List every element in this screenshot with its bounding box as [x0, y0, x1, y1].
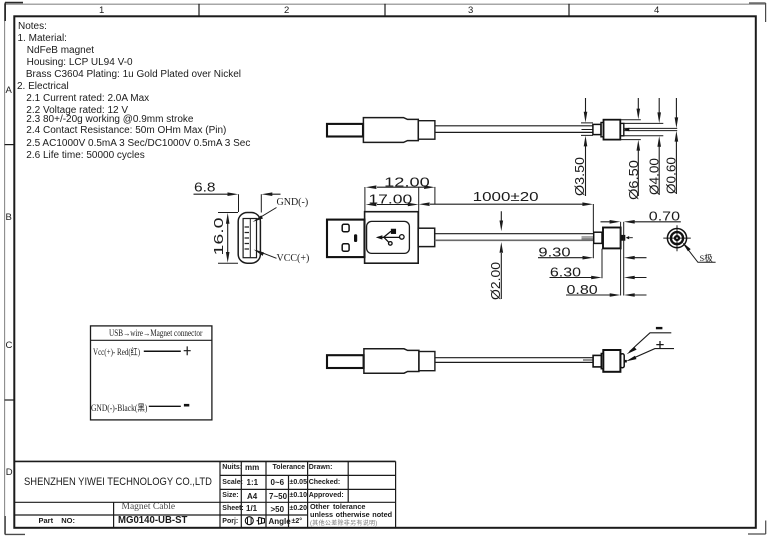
- shell center bar: [354, 234, 357, 242]
- wiring box GND row text: [91, 401, 147, 414]
- leader VCC(+): [257, 251, 277, 259]
- svg-text:0.70: 0.70: [649, 209, 680, 224]
- dimension Ø3.50 arrows: [585, 98, 587, 196]
- notes line 3: [27, 45, 94, 56]
- svg-text:17.00: 17.00: [368, 191, 412, 206]
- USB strain relief (side view): [418, 228, 435, 246]
- USB-A front view outer shell: [238, 213, 260, 264]
- pogo pin lower line (top view): [624, 130, 677, 132]
- magnet connector boot (bottom view): [593, 355, 601, 367]
- USB overmold body (side view): [365, 212, 419, 264]
- wiring red lead line: [144, 350, 181, 352]
- tb tol 0~6: [271, 478, 285, 487]
- notes line 12: [26, 150, 144, 161]
- magnet connector boot (side view): [594, 232, 602, 243]
- product title: [122, 502, 176, 512]
- magnet connector nose (bottom view): [620, 354, 624, 368]
- tb value mm: [245, 463, 259, 472]
- title block top edge: [14, 460, 395, 462]
- magnet connector front step ring (top view): [620, 123, 624, 135]
- svg-text:1000±20: 1000±20: [473, 189, 539, 204]
- magnet tip front view center pin: [674, 235, 680, 241]
- tb tol ±2°: [292, 518, 303, 525]
- svg-text:12.00: 12.00: [384, 174, 430, 189]
- USB plug strain relief (bottom view): [419, 352, 435, 371]
- notes line 7: [26, 93, 149, 104]
- tb header Tolerance: [273, 464, 306, 471]
- zone row label A: [6, 85, 12, 96]
- label S-pole: [700, 252, 713, 264]
- dimension Ø4.00 arrows: [658, 98, 660, 195]
- dim 16.0 extension lines: [218, 213, 238, 264]
- notes line 9: [26, 114, 193, 125]
- overmold grip panel: [367, 221, 410, 253]
- notes line 2: [18, 33, 67, 44]
- leader plus: [629, 349, 674, 360]
- trim corner bottom-right: [748, 521, 766, 535]
- magnet connector body (side view): [603, 228, 621, 249]
- pogo pin nub (bottom view): [624, 360, 627, 363]
- leader S-pole: [684, 244, 716, 263]
- tb tol ±0.10: [290, 492, 307, 499]
- USB plug overmold body (bottom view): [364, 349, 419, 373]
- stripped inner wire at magnet end (top view): [582, 129, 594, 131]
- tb value A4: [247, 492, 257, 501]
- tb label Porj: [222, 518, 238, 525]
- USB plug strain relief (top view): [418, 121, 435, 140]
- company name: [24, 476, 212, 488]
- shell contact window lower: [342, 244, 349, 251]
- wiring box header line: [91, 339, 212, 341]
- zone column label 3: [468, 5, 473, 16]
- pin tip arrow (side view): [626, 236, 630, 239]
- pin base wedge (top view): [624, 128, 629, 132]
- dim 12.00 line and arrows: [377, 186, 424, 188]
- tb label Approved: [309, 492, 344, 499]
- extension line cable-end: [592, 204, 594, 258]
- title block verticals: [114, 461, 396, 528]
- title block row lines right section: [220, 475, 396, 489]
- USB plug metal shell (top view): [327, 124, 363, 137]
- tb other tolerance line1: [310, 502, 365, 511]
- dim 6.30 line and arrow: [550, 277, 592, 279]
- dimension Ø6.50 arrows: [637, 98, 639, 196]
- magnet tip face (side view): [621, 235, 625, 241]
- label GND(-): [277, 197, 309, 208]
- notes line 11: [26, 138, 250, 149]
- label VCC(+): [277, 253, 310, 264]
- shell contact window upper: [342, 224, 349, 231]
- svg-text:6.8: 6.8: [194, 179, 216, 194]
- extension line block-left down: [601, 249, 603, 279]
- extension lines step OD (dim 4.00): [624, 123, 664, 135]
- magnet connector body block (top view): [604, 120, 621, 140]
- cable upper line (side view): [435, 233, 594, 235]
- trim corner bottom-left: [5, 516, 25, 535]
- magnet tip front view inner ring: [671, 232, 683, 244]
- trim corner top-right: [749, 3, 766, 22]
- cable lower line (side view): [435, 239, 594, 241]
- tb value 1/1: [246, 504, 257, 513]
- tb label Sheet: [222, 505, 243, 512]
- tb label Nuits: [222, 464, 242, 471]
- tb tol Angle: [269, 517, 291, 526]
- extension line body-right: [418, 187, 420, 228]
- magnet tip front view outer circle: [667, 229, 686, 248]
- svg-text:9.30: 9.30: [538, 245, 570, 260]
- part no label: [39, 516, 76, 525]
- tb tol >50: [271, 505, 285, 514]
- dim Ø2.00 arrows: [500, 211, 502, 299]
- magnet connector cable boot (top view): [593, 124, 601, 134]
- dim 17.00 line and arrows: [377, 204, 408, 206]
- counter arrows right of tip (9.30/6.30/0.80): [634, 258, 647, 295]
- zone tick top 3/4: [568, 4, 570, 16]
- wiring box frame: [91, 326, 212, 420]
- dim 6.8 line and arrows: [194, 193, 281, 195]
- svg-text:6.30: 6.30: [550, 264, 581, 279]
- extension lines boot OD (dim 3.50): [581, 123, 593, 135]
- extension lines block OD (dim 6.50): [621, 120, 641, 140]
- cable upper line (top view): [435, 125, 593, 127]
- dim 9.30 line and arrow: [538, 257, 583, 259]
- notes line 6: [17, 81, 69, 92]
- USB-A front view tongue inner line: [249, 219, 251, 257]
- cable lower line (top view): [435, 131, 593, 133]
- tb label Scale: [222, 479, 243, 486]
- notes line 1: [18, 21, 47, 32]
- wiring box Vcc row text: [93, 345, 140, 358]
- svg-text:0.80: 0.80: [567, 282, 598, 297]
- USB trident symbol: [378, 229, 404, 245]
- extension line tip-face long: [623, 222, 625, 296]
- outer trim line top: [5, 3, 766, 5]
- zone row label B: [6, 212, 12, 223]
- zone row label C: [6, 340, 13, 351]
- wiring box header text: [109, 328, 202, 338]
- leader minus: [630, 333, 672, 352]
- part number: [118, 515, 187, 526]
- title block row line 4/5: [14, 514, 307, 516]
- tb label Drawn: [309, 464, 333, 471]
- zone column label 1: [99, 5, 104, 16]
- tb label Size: [222, 492, 238, 499]
- USB plug metal shell (bottom view): [327, 355, 364, 368]
- leader GND(-): [256, 208, 277, 221]
- dim 6.8 extension lines: [239, 194, 262, 212]
- USB-A front view contact ticks: [245, 227, 249, 249]
- tb tol ±0.05: [290, 479, 307, 486]
- tb tol ±0.20: [290, 505, 307, 512]
- extension line block-right long: [620, 222, 622, 296]
- magnet connector body (bottom view): [603, 350, 620, 372]
- dim 16.0 line and arrows: [227, 223, 229, 254]
- extension line relief-end: [434, 187, 436, 204]
- dimension Ø0.60 arrows: [675, 98, 677, 194]
- magnet tip front view crosshair: [663, 225, 691, 251]
- zone tick top 1/2: [198, 4, 200, 16]
- USB-A front view tongue: [243, 219, 256, 258]
- tb label Checked: [309, 479, 341, 486]
- trim corner top-left: [5, 3, 23, 21]
- projection symbol circle: [245, 517, 253, 525]
- notes line 8: [26, 105, 128, 116]
- inner wire (bottom view): [583, 359, 593, 361]
- notes line 10: [26, 125, 226, 136]
- projection symbol frustum: [257, 517, 265, 524]
- notes line 5: [26, 69, 241, 80]
- magnet connector neck (bottom view): [601, 354, 603, 369]
- cable lower line (bottom view): [435, 361, 593, 363]
- dim 0.80 line and arrow: [566, 294, 610, 296]
- tb value 1:1: [247, 478, 259, 487]
- USB plug metal shell (side view): [327, 220, 365, 258]
- zone row label D: [6, 467, 13, 478]
- zone tick left A/B: [5, 144, 15, 146]
- dim 1000±20 line and arrows: [430, 203, 583, 205]
- wiring red plus: [184, 346, 191, 355]
- dim 0.70 line and arrows: [601, 221, 681, 223]
- zone tick top 2/3: [384, 4, 386, 16]
- wiring black minus: [184, 404, 189, 407]
- minus glyph: [656, 327, 663, 329]
- plus glyph: [656, 341, 663, 348]
- extension line body-left: [364, 187, 366, 211]
- zone column label 4: [654, 5, 659, 16]
- USB plug overmold body (top view): [363, 118, 418, 143]
- tb other tolerance line2: [310, 510, 392, 519]
- zone column label 2: [284, 5, 289, 16]
- cable upper line (bottom view): [435, 357, 593, 359]
- notes line 4: [27, 57, 133, 68]
- tb tol 7~50: [269, 492, 287, 501]
- magnet connector neck ring (top view): [601, 123, 604, 137]
- wiring black lead line: [149, 405, 181, 407]
- pogo pin upper line (top view): [624, 127, 677, 129]
- zone tick left C/D: [5, 399, 15, 401]
- inner wires at connector (side view): [582, 237, 594, 239]
- tb other tolerance line3: [310, 518, 378, 527]
- title block row line 3/4: [14, 501, 395, 503]
- outer trim line left: [4, 4, 6, 535]
